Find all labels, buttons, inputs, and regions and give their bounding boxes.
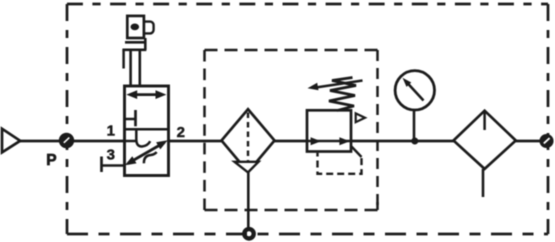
svg-text:3: 3 <box>107 147 115 164</box>
valve bottom position: port 1 stub <box>125 140 137 143</box>
regulator flow arrowhead left <box>311 137 321 145</box>
lubricator L1 diamond <box>454 111 516 169</box>
pressure gauge G1 <box>395 71 434 110</box>
regulator flow arrowhead right <box>339 137 349 145</box>
inner dashed enclosure box (filter-regulator unit) <box>205 50 378 210</box>
valve top position: double-headed flow arrow <box>126 90 166 99</box>
valve port 3 plugged stub <box>102 157 125 173</box>
valve V1 body <box>125 86 169 176</box>
lubricator drain line <box>482 169 485 197</box>
regulator R1 body <box>307 110 351 151</box>
junction dot <box>411 138 418 145</box>
air supply source triangle <box>2 129 20 153</box>
regulator relief vent triangle <box>356 113 365 122</box>
wire: filter outlet to regulator inlet <box>275 140 308 143</box>
lubricator drip stub <box>483 113 486 131</box>
svg-text:P: P <box>46 152 56 169</box>
filter water separator triangle <box>235 162 259 173</box>
solenoid linkage left stub <box>122 50 125 69</box>
manual override tab <box>144 22 153 34</box>
gauge needle <box>403 78 424 101</box>
actuator stem left line <box>129 50 132 86</box>
regulator pilot solid diagonal <box>352 147 362 158</box>
gauge stem <box>413 110 416 141</box>
solenoid coil dot <box>131 24 140 31</box>
svg-text:1: 1 <box>107 122 115 139</box>
wire: supply line from source triangle to valve port 1 <box>20 140 125 143</box>
valve bottom position: curved path from divider with upper throttle hook <box>136 130 150 147</box>
actuator stem right line <box>139 50 142 86</box>
filter F1 diamond <box>222 109 275 172</box>
wire: valve port 2 to filter inlet <box>169 140 222 143</box>
regulator pilot dashed feedback loop <box>318 153 362 174</box>
regulator spring zigzag <box>329 78 356 111</box>
svg-text:2: 2 <box>177 124 185 141</box>
inlet plug connection circle <box>60 134 73 147</box>
solenoid linkage upper bar <box>125 41 145 44</box>
solenoid linkage lower bar <box>122 48 146 51</box>
filter drain line <box>247 172 250 228</box>
wire: lubricator outlet to output port <box>516 140 542 143</box>
valve top position: blocked port stub with T-bar <box>125 110 136 126</box>
solenoid coil box <box>127 16 144 38</box>
valve position divider <box>125 128 169 131</box>
valve bottom position: diagonal flow arrow <box>125 140 168 165</box>
valve throttle lower hook <box>144 152 157 163</box>
solenoid linkage right vertical <box>144 38 147 50</box>
drain plug connection circle <box>244 229 253 238</box>
regulator adjustment arrow <box>308 81 363 91</box>
regulator flow line through body <box>307 140 351 143</box>
wire: regulator outlet to lubricator inlet <box>351 140 454 143</box>
outlet plug connection circle <box>541 135 553 147</box>
filter element dashed line <box>247 113 249 168</box>
